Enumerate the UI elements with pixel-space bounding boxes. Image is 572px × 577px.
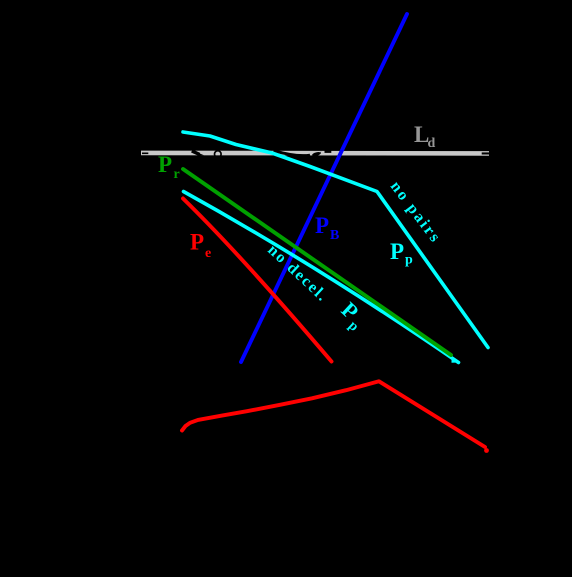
curve P_B (blue line) — [241, 14, 407, 362]
black fragment: wedge tick over gray line — [192, 151, 200, 155]
svg-text:p: p — [405, 253, 413, 268]
black fragment: slit at left end of gray line — [142, 153, 148, 155]
curve no-pairs P_P (cyan curve 1) — [183, 132, 488, 348]
black slit at right end of gray line — [482, 152, 490, 154]
gray horizontal line L_d — [141, 151, 489, 156]
svg-text:P: P — [190, 230, 204, 255]
curve P_e (red line 1) — [183, 199, 332, 362]
svg-text:d: d — [428, 136, 436, 151]
curve P_r (green line) — [183, 169, 451, 355]
rotated label P_p (cyan) — [334, 297, 372, 335]
svg-text:P: P — [315, 213, 329, 238]
svg-text:e: e — [205, 246, 211, 261]
svg-text:B: B — [330, 228, 339, 243]
arrow tick at end of cyan line 2 — [452, 357, 460, 363]
red curve 2 (bottom) — [182, 381, 485, 447]
svg-text:P: P — [390, 239, 404, 264]
red curve 2 end blob — [484, 448, 489, 453]
black fragment: long arc with thick tip over gray line — [274, 151, 311, 156]
black fragment: small circle over gray line — [215, 151, 222, 158]
curve no-decel P_p (cyan line 2) — [184, 192, 459, 363]
black fragment: nick after arc — [325, 150, 332, 153]
svg-text:r: r — [174, 167, 180, 182]
svg-text:P: P — [158, 152, 172, 177]
